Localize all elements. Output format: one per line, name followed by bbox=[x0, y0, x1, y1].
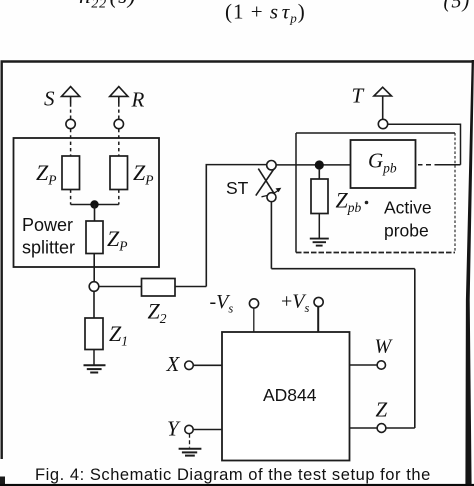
dashed wire R terminal to ZP2 bbox=[118, 129, 120, 156]
dashed wire ZP2 bottom bbox=[118, 190, 120, 205]
active probe box bbox=[296, 133, 455, 253]
node terminal below splitter bbox=[89, 282, 99, 292]
junction dot probe input bbox=[315, 160, 324, 169]
antenna T bbox=[374, 87, 392, 119]
wire switch bottom drop bbox=[270, 202, 272, 269]
svg-text:S: S bbox=[44, 87, 55, 111]
wire node to Z1 bbox=[93, 291, 95, 318]
wire joining ZP1 ZP2 bbox=[71, 204, 119, 206]
wire Y to ground bbox=[189, 434, 191, 448]
resistor Zpb bbox=[318, 170, 320, 179]
opamp block AD844 bbox=[222, 332, 350, 461]
wire dot to ZP3 bbox=[94, 205, 96, 222]
svg-text:ZP: ZP bbox=[133, 160, 154, 188]
switch ST top contact bbox=[267, 161, 276, 170]
terminal T bbox=[378, 119, 387, 128]
wire switch top to probe input bbox=[276, 164, 350, 166]
svg-text:ZP: ZP bbox=[107, 226, 128, 254]
svg-text:Power: Power bbox=[22, 215, 73, 235]
wire Gpb output bbox=[418, 164, 461, 166]
svg-text:Y: Y bbox=[167, 417, 181, 441]
dashed wire S antenna to terminal bbox=[70, 104, 72, 120]
dashed wire ZP1 bottom bbox=[70, 190, 72, 205]
switch ST arrow bbox=[262, 190, 280, 197]
wire Y to box bbox=[193, 429, 222, 431]
svg-text:(1 + s τp): (1 + s τp) bbox=[225, 0, 306, 25]
wire box to Z bbox=[350, 427, 378, 429]
wire bottom run to Z riser bbox=[271, 268, 414, 270]
wire Zpb to ground bbox=[318, 214, 320, 239]
terminal +Vs bbox=[314, 297, 323, 306]
svg-text:+Vs: +Vs bbox=[281, 291, 310, 316]
wire node to Z2 bbox=[99, 286, 142, 288]
dashed wire S terminal to ZP1 bbox=[70, 129, 72, 156]
ground below Y bbox=[179, 449, 202, 456]
wire box to W bbox=[350, 364, 378, 366]
wire riser to switch level bbox=[205, 165, 207, 287]
svg-text:R: R bbox=[131, 88, 145, 112]
dashed wire R antenna to terminal bbox=[118, 104, 120, 120]
terminal W bbox=[377, 361, 385, 369]
svg-text:h22 (s): h22 (s) bbox=[79, 0, 136, 12]
resistor ZP3 bbox=[86, 221, 103, 254]
svg-text:Z1: Z1 bbox=[109, 321, 128, 349]
terminal -Vs bbox=[249, 299, 258, 308]
wire +Vs to box bbox=[317, 307, 319, 332]
resistor Z1 bbox=[85, 318, 103, 350]
resistor Z2 bbox=[142, 279, 176, 297]
ground below Zpb bbox=[310, 239, 329, 246]
wire T to probe output bbox=[388, 124, 461, 165]
terminal S bbox=[66, 119, 75, 128]
switch ST blades bbox=[256, 169, 275, 196]
svg-text:splitter: splitter bbox=[22, 238, 75, 258]
svg-text:probe: probe bbox=[384, 221, 429, 241]
svg-text:Zpb: Zpb bbox=[336, 188, 362, 216]
wire riser to switch contact bbox=[206, 164, 267, 166]
terminal Y bbox=[185, 425, 193, 433]
svg-text:Fig. 4: Schematic Diagram of t: Fig. 4: Schematic Diagram of the test se… bbox=[35, 466, 431, 484]
resistor ZP2 bbox=[110, 156, 128, 190]
svg-text:ST: ST bbox=[226, 178, 249, 198]
svg-text:(5): (5) bbox=[444, 0, 471, 12]
stray dot bbox=[365, 201, 369, 205]
wire Z riser bbox=[414, 269, 416, 428]
svg-text:Z: Z bbox=[376, 398, 388, 422]
antenna R bbox=[110, 87, 128, 104]
amplifier block Gpb bbox=[351, 140, 416, 188]
svg-text:-Vs: -Vs bbox=[210, 291, 234, 316]
svg-text:W: W bbox=[375, 336, 394, 358]
svg-text:AD844: AD844 bbox=[263, 385, 317, 405]
resistor ZP1 bbox=[62, 156, 80, 190]
svg-text:Z2: Z2 bbox=[148, 299, 167, 327]
junction dot splitter bbox=[90, 200, 98, 208]
svg-text:Active: Active bbox=[384, 198, 432, 218]
svg-text:X: X bbox=[166, 352, 181, 376]
switch ST bottom contact bbox=[267, 193, 276, 202]
wire Z to riser bbox=[386, 427, 415, 429]
wire -Vs to box bbox=[253, 308, 255, 332]
wire Z2 to riser bbox=[175, 286, 206, 288]
wire Z1 to ground bbox=[93, 350, 95, 365]
terminal R bbox=[114, 119, 123, 128]
svg-text:T: T bbox=[352, 84, 365, 108]
terminal Z bbox=[377, 424, 386, 433]
power splitter box bbox=[14, 138, 160, 267]
svg-text:ZP: ZP bbox=[36, 160, 57, 188]
wire X to box bbox=[193, 364, 222, 366]
ground below Z1 bbox=[84, 365, 106, 372]
wire ZP3 to node bbox=[93, 254, 95, 282]
terminal X bbox=[185, 361, 194, 370]
antenna S bbox=[62, 87, 80, 104]
